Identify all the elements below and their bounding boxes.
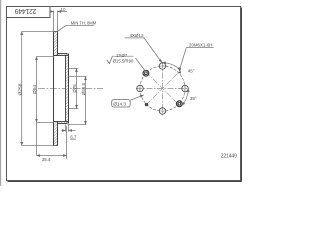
small hole D7 bottom-left (145, 103, 148, 106)
svg-text:39°: 39° (190, 96, 197, 101)
friction plate section lower band (hatched) (54, 122, 58, 146)
45 deg position mark on bolt circle (179, 71, 181, 74)
lug hole N (159, 63, 165, 69)
vertical centerline (162, 62, 164, 116)
flange mounting face line (68, 54, 70, 124)
svg-text:2XØ7: 2XØ7 (116, 53, 128, 58)
svg-text:Ø54: Ø54 (32, 85, 38, 94)
dimension 6.7 (flange thickness) (62, 125, 76, 132)
lug hole W (137, 85, 143, 91)
threaded hole M6 top-left (143, 70, 149, 76)
dimension D76 (69, 69, 79, 109)
mounting flange hub section (hatched) (66, 56, 69, 122)
plate left face line through bore region (53, 56, 55, 122)
diagonal centerline 135-315 (146, 72, 179, 105)
svg-text:35.4: 35.4 (42, 157, 51, 162)
title block box (7, 7, 51, 18)
bolt circle (dashed) (140, 66, 185, 111)
hat web lower (hatched) (58, 122, 68, 124)
svg-text:Ø258: Ø258 (17, 83, 23, 95)
horizontal centerline (136, 88, 189, 90)
hat web upper (hatched) (58, 54, 68, 56)
svg-text:Ø76: Ø76 (72, 84, 77, 93)
dimension 10 (plate thickness) (51, 11, 67, 32)
svg-text:Ø15.5/R90: Ø15.5/R90 (113, 59, 134, 64)
svg-text:Ø66.8: Ø66.8 (81, 82, 86, 95)
diagonal centerline 45-225 (146, 72, 179, 105)
friction plate section upper band (hatched) (54, 32, 58, 56)
svg-text:Ø14.3: Ø14.3 (113, 102, 126, 107)
svg-text:221449: 221449 (15, 7, 37, 14)
callout D14.3 boxed with leader to W hole (112, 100, 130, 107)
dimension D54 (hat bore) (37, 57, 54, 156)
dimension D66.8 (68, 77, 87, 125)
svg-text:4XØ13: 4XØ13 (130, 33, 145, 38)
lug hole S (159, 108, 165, 114)
svg-text:6.7: 6.7 (70, 134, 77, 139)
drawing border frame (7, 7, 241, 181)
angle arc 45deg (163, 63, 181, 71)
left image edge strip (0, 0, 1, 186)
dimension 35.4 (overall width) (37, 126, 67, 159)
angle arc 39deg (182, 89, 188, 106)
svg-text:MIN TH. 8MM: MIN TH. 8MM (71, 21, 97, 26)
lug hole E (182, 85, 188, 91)
dimension D258 (outer diameter) (22, 32, 58, 146)
svg-text:221449: 221449 (221, 153, 237, 159)
svg-text:45°: 45° (188, 69, 195, 74)
svg-text:20M6X1-6H: 20M6X1-6H (189, 42, 212, 47)
svg-text:10: 10 (61, 7, 66, 12)
centerline (disc axis) (38, 88, 103, 90)
threaded hole M6 bottom-right (176, 101, 182, 107)
surface finish mark with D15.5/R90 (107, 56, 113, 63)
